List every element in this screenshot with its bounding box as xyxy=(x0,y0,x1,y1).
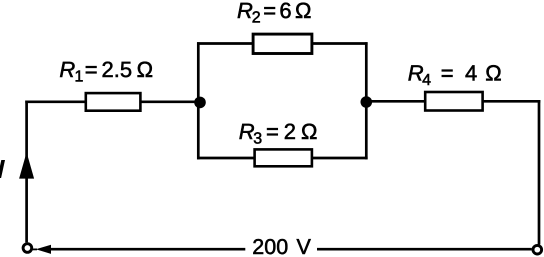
wire bottom branch right xyxy=(311,157,368,160)
resistor R2 body xyxy=(253,34,312,53)
wire top branch left xyxy=(197,42,255,45)
wire R4 to right corner xyxy=(482,100,541,103)
svg-text:R2=6Ω: R2=6Ω xyxy=(237,0,311,27)
wire bottom right segment xyxy=(317,248,532,251)
wire bottom branch left xyxy=(197,157,256,160)
resistor R4 body xyxy=(425,92,482,111)
wire parallel right vertical xyxy=(365,42,368,159)
terminal right xyxy=(533,245,542,254)
wire node B to R4 xyxy=(366,100,426,103)
wire left vertical xyxy=(25,101,28,243)
wire top-left horizontal xyxy=(25,100,88,103)
node A junction dot xyxy=(194,97,206,109)
wire parallel left vertical xyxy=(197,42,200,159)
wire bottom left segment xyxy=(47,248,245,251)
node B junction dot xyxy=(361,96,373,108)
svg-text:200V: 200V xyxy=(252,235,311,257)
wire terminal to arrow tip xyxy=(33,248,38,250)
label I (italic, mostly cropped at left edge) xyxy=(0,160,5,178)
svg-text:R3=2Ω: R3=2Ω xyxy=(239,119,318,148)
wire top branch right xyxy=(311,42,368,45)
wire right vertical xyxy=(538,100,541,245)
current arrow I (up) xyxy=(19,152,34,178)
terminal left xyxy=(23,244,32,253)
wire R1 to node A xyxy=(139,100,199,103)
arrow into left terminal (left) xyxy=(36,245,51,254)
resistor R3 body xyxy=(255,149,312,166)
resistor R1 body xyxy=(86,93,141,111)
svg-text:R1=2.5Ω: R1=2.5Ω xyxy=(59,57,153,86)
